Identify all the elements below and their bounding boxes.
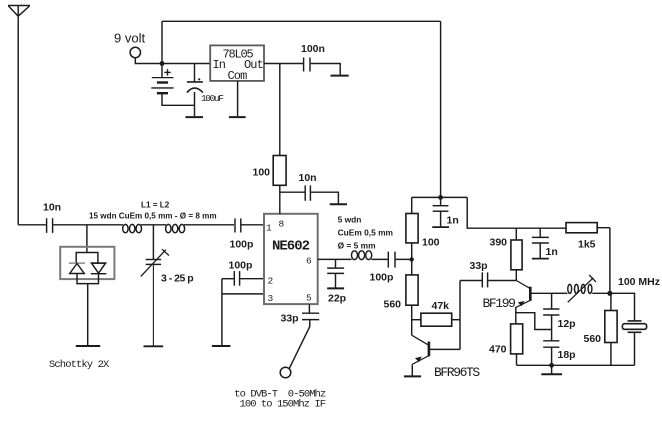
capacitor 100n bbox=[301, 43, 325, 72]
inductor variable 100MHz bbox=[568, 275, 610, 302]
svg-text:10n: 10n bbox=[299, 172, 317, 184]
ground schottky bbox=[76, 345, 100, 347]
schottky inner top rail bbox=[76, 253, 98, 264]
wire 197 right corner down bbox=[467, 197, 566, 228]
svg-text:1k5: 1k5 bbox=[578, 239, 596, 251]
wire junction down to schottky bbox=[86, 225, 88, 253]
svg-text:100uF: 100uF bbox=[201, 93, 224, 104]
antenna bbox=[8, 6, 30, 225]
ground trimmer bbox=[144, 345, 164, 347]
wire junction down to trimmer bbox=[152, 225, 154, 259]
svg-text:100n: 100n bbox=[301, 43, 325, 55]
wire bbox=[184, 224, 234, 226]
svg-text:BFR96TS: BFR96TS bbox=[434, 365, 480, 380]
wire Com to ground bbox=[237, 81, 239, 116]
wire 33p to output terminal bbox=[289, 320, 309, 369]
wire emitter to 470 and caps bbox=[516, 307, 517, 324]
resistor 100 (right chain) bbox=[406, 214, 440, 249]
svg-text:In: In bbox=[213, 58, 226, 72]
ground bottom rail bbox=[541, 365, 562, 374]
svg-text:390: 390 bbox=[490, 237, 508, 249]
IC NE602 box bbox=[264, 214, 318, 304]
battery 9V bbox=[151, 64, 194, 106]
svg-text:9 volt: 9 volt bbox=[114, 31, 145, 46]
wire emitter branch to 12p/18p mid bbox=[516, 313, 552, 330]
wire horizontal at 197 bbox=[412, 196, 468, 198]
svg-text:Out: Out bbox=[244, 58, 263, 72]
wire bbox=[53, 224, 123, 226]
wire top rail up bbox=[161, 21, 163, 63]
svg-text:100 to 150Mhz IF: 100 to 150Mhz IF bbox=[240, 399, 326, 411]
resistor 470 bbox=[489, 324, 523, 365]
resistor 560 (left chain) bbox=[384, 275, 419, 311]
inductor L1 bbox=[123, 224, 142, 232]
svg-text:15 wdn CuEm 0,5 mm - Ø = 8 mm: 15 wdn CuEm 0,5 mm - Ø = 8 mm bbox=[89, 212, 217, 221]
capacitor 18p bbox=[543, 341, 575, 366]
svg-text:Ø = 5 mm: Ø = 5 mm bbox=[338, 241, 376, 251]
svg-text:5: 5 bbox=[306, 293, 312, 304]
capacitor 1n (second) bbox=[532, 228, 558, 258]
svg-text:CuEm 0,5 mm: CuEm 0,5 mm bbox=[338, 228, 393, 238]
transistor BF199 bbox=[483, 281, 552, 312]
node dot right bbox=[607, 291, 612, 296]
svg-text:3: 3 bbox=[268, 293, 274, 304]
transistor BFR96TS bbox=[412, 281, 481, 381]
output terminal circle bbox=[280, 367, 291, 378]
wire top rail junction bbox=[438, 195, 443, 200]
svg-text:100 MHz: 100 MHz bbox=[618, 276, 660, 288]
bottom rail bbox=[517, 364, 635, 366]
inductor L2 bbox=[166, 224, 185, 232]
ground BFR96TS bbox=[404, 375, 421, 377]
capacitor 100p pin6 bbox=[370, 252, 396, 284]
wire pin6 bbox=[318, 258, 352, 260]
wire top rail down right bbox=[440, 21, 442, 197]
capacitor 33p pin5 bbox=[281, 313, 320, 325]
wire input line bbox=[18, 224, 46, 226]
svg-text:BF199: BF199 bbox=[483, 296, 516, 311]
ground 100n bbox=[331, 75, 349, 77]
ground 100uF bbox=[186, 116, 204, 118]
capacitor 100p pin1 bbox=[230, 218, 254, 250]
inductor 5wdn bbox=[352, 251, 372, 260]
wire between resistors bbox=[411, 243, 413, 275]
svg-text:33p: 33p bbox=[281, 313, 299, 325]
wire down to 100 resistor bbox=[411, 197, 413, 213]
svg-text:100p: 100p bbox=[230, 239, 254, 251]
wire 100n right to ground bbox=[311, 64, 341, 75]
wire pin2 bbox=[240, 278, 264, 280]
resistor 1k5 bbox=[566, 223, 610, 294]
wire Out bbox=[264, 63, 303, 65]
capacitor 3-25p trimmer bbox=[141, 249, 193, 284]
svg-text:2: 2 bbox=[268, 276, 274, 287]
svg-text:5 wdn: 5 wdn bbox=[338, 215, 362, 225]
node dot bottom rail bbox=[549, 363, 554, 368]
wire coil to 100p bbox=[372, 258, 388, 260]
wire schottky to ground bbox=[87, 284, 89, 346]
svg-text:L1 = L2: L1 = L2 bbox=[141, 201, 170, 210]
node junction dot bbox=[160, 61, 165, 66]
wire collector to coil bbox=[552, 292, 568, 294]
capacitor 100p pin2 bbox=[229, 260, 253, 286]
diode left (pointing up) bbox=[69, 263, 85, 273]
svg-text:Schottky 2X: Schottky 2X bbox=[49, 359, 110, 371]
svg-text:3 - 25 p: 3 - 25 p bbox=[161, 273, 193, 285]
diode right (pointing down) bbox=[91, 263, 107, 274]
resistor 47k bbox=[412, 300, 460, 326]
svg-text:6: 6 bbox=[306, 256, 312, 267]
wire resistor to pin8 bbox=[279, 185, 281, 214]
svg-text:12p: 12p bbox=[558, 318, 576, 330]
capacitor 33p (interstage) bbox=[460, 260, 516, 287]
wire top rail bbox=[162, 20, 441, 22]
resistor 390 bbox=[490, 228, 523, 280]
svg-text:100: 100 bbox=[253, 167, 271, 179]
svg-text:22p: 22p bbox=[328, 293, 346, 305]
wire 100p left to vertical bbox=[222, 278, 234, 280]
resistor 100 (top) bbox=[253, 156, 287, 186]
wire 100p to chain bbox=[396, 258, 412, 260]
svg-text:560: 560 bbox=[584, 333, 602, 345]
wire 560 to base bbox=[411, 305, 413, 335]
wire vertical pin3/ground bbox=[221, 279, 223, 346]
svg-text:100p: 100p bbox=[229, 260, 253, 272]
9 volt terminal circle bbox=[130, 47, 140, 57]
wire pin3 bbox=[222, 293, 264, 295]
wire node to crystal bbox=[610, 293, 635, 320]
capacitor 100uF electrolytic bbox=[187, 64, 224, 117]
svg-text:NE602: NE602 bbox=[272, 239, 310, 255]
wire bbox=[141, 224, 166, 226]
capacitor 12p bbox=[543, 293, 575, 340]
resistor 560 (right) bbox=[584, 293, 618, 365]
wire 9v to battery bbox=[135, 58, 210, 64]
svg-text:10n: 10n bbox=[43, 202, 61, 214]
svg-text:100: 100 bbox=[422, 237, 440, 249]
capacitor 10n input bbox=[43, 202, 61, 233]
capacitor 1n (first) bbox=[432, 197, 458, 227]
ground 22p bbox=[327, 287, 344, 289]
capacitor 22p bbox=[327, 259, 346, 304]
svg-text:560: 560 bbox=[384, 299, 402, 311]
svg-text:33p: 33p bbox=[470, 260, 488, 272]
svg-text:8: 8 bbox=[279, 219, 285, 230]
label 5 wdn block bbox=[338, 215, 393, 251]
svg-text:100p: 100p bbox=[370, 272, 394, 284]
svg-text:1n: 1n bbox=[546, 246, 558, 258]
svg-text:470: 470 bbox=[489, 344, 507, 356]
schottky inner bottom rail bbox=[77, 274, 99, 284]
ground 10n pin8 bbox=[330, 203, 347, 205]
schottky box bbox=[60, 247, 114, 279]
wire Out junction down bbox=[279, 64, 281, 156]
ground 78L05 bbox=[229, 116, 246, 118]
wire pin5 down bbox=[308, 304, 310, 313]
svg-text:1: 1 bbox=[266, 223, 272, 234]
svg-text:47k: 47k bbox=[432, 300, 450, 312]
svg-text:1n: 1n bbox=[447, 215, 459, 227]
capacitor 10n pin8 bbox=[280, 172, 339, 204]
svg-text:18p: 18p bbox=[558, 349, 576, 361]
crystal 100MHz bbox=[622, 321, 646, 365]
node dot bbox=[410, 257, 414, 261]
wire to pin1 bbox=[242, 224, 265, 226]
ground pin3 branch bbox=[212, 345, 231, 347]
wire trimmer to ground bbox=[152, 264, 154, 346]
regulator 78L05 box bbox=[210, 45, 264, 83]
